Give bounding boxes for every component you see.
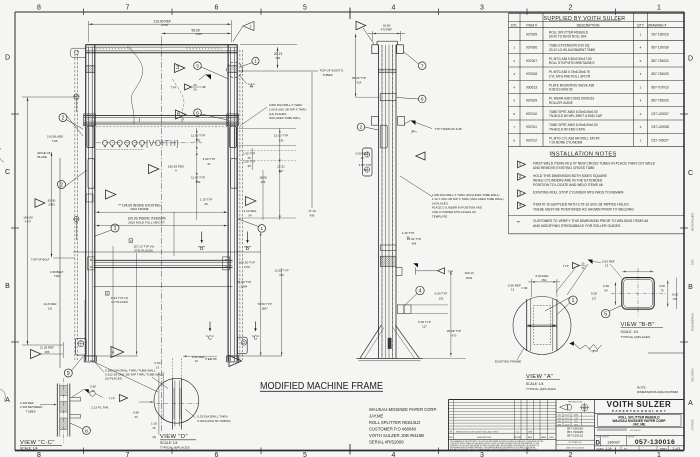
svg-text:VIEW "D": VIEW "D" <box>160 434 188 440</box>
svg-text:3: 3 <box>513 72 515 76</box>
border zone numbers top <box>37 5 661 12</box>
svg-text:"C": "C" <box>252 335 260 341</box>
svg-text:(8): (8) <box>153 435 157 439</box>
svg-text:C57-726027: C57-726027 <box>651 138 669 142</box>
balloon 2 upper <box>59 114 83 137</box>
flag + dim 82.00 <box>35 198 56 207</box>
voith roll circles <box>96 140 145 149</box>
svg-text:2: 2 <box>640 125 642 129</box>
svg-text:4: 4 <box>392 5 396 12</box>
side view collar 2 <box>380 245 396 251</box>
svg-text:567: 567 <box>279 169 284 173</box>
svg-text:KMW: KMW <box>574 415 578 417</box>
svg-text:0.50 REF: 0.50 REF <box>508 283 521 287</box>
drill note 0.891 <box>240 103 306 126</box>
open flag mid left <box>106 190 116 199</box>
svg-text:8: 8 <box>37 452 41 457</box>
side view valve bracket <box>397 305 448 314</box>
svg-text:TN-BOLD W/ NPL BRKT & END CAP: TN-BOLD W/ NPL BRKT & END CAP <box>549 114 602 118</box>
svg-text:NAME: NAME <box>541 436 547 439</box>
svg-text:C: C <box>5 169 10 176</box>
svg-text:17.16: 17.16 <box>308 209 316 213</box>
svg-text:4: 4 <box>419 288 422 294</box>
svg-text:13: 13 <box>91 389 95 393</box>
installation note 1 flag <box>518 161 656 170</box>
top of bolt label <box>31 258 75 262</box>
title block outline <box>449 400 685 451</box>
view D tube section <box>142 358 213 430</box>
front view right column tube <box>228 45 237 362</box>
svg-text:127: 127 <box>592 296 597 300</box>
svg-text:5: 5 <box>513 99 515 103</box>
svg-text:4: 4 <box>640 72 642 76</box>
border zone letters right <box>688 56 693 408</box>
svg-text:937010: 937010 <box>526 112 537 116</box>
svg-text:6: 6 <box>421 97 424 103</box>
balloon 9 bottom <box>64 357 83 378</box>
svg-text:C57-120037: C57-120037 <box>651 112 669 116</box>
svg-text:DTL: DTL <box>511 23 517 27</box>
svg-text:CUSTOMER TO VERIFY THIS DIMENS: CUSTOMER TO VERIFY THIS DIMENSION PRIOR … <box>533 219 648 223</box>
svg-text:0.90: 0.90 <box>133 410 139 414</box>
svg-text:USED ON 057-130016: USED ON 057-130016 <box>566 447 584 449</box>
svg-text:TYP: TYP <box>448 270 454 274</box>
side view tubes <box>377 41 398 358</box>
svg-text:5: 5 <box>303 5 307 12</box>
installation note 3 flag <box>518 190 625 197</box>
svg-text:8: 8 <box>85 428 88 434</box>
svg-text:937009: 937009 <box>526 99 537 103</box>
svg-text:2: 2 <box>60 182 63 188</box>
customer order text block <box>369 407 437 445</box>
svg-text:1867: 1867 <box>261 307 268 311</box>
balloon 1 inside panel <box>94 224 119 237</box>
svg-text:C57-120038: C57-120038 <box>651 125 669 129</box>
parts list table: SUPPLIED BY VOITH SULZER <box>509 13 685 146</box>
bolt symbol on existing frame <box>73 94 79 113</box>
svg-text:REF DWG NO: REF DWG NO <box>630 430 642 432</box>
svg-text:6.00x10.00x0.50: 6.00x10.00x0.50 <box>549 88 573 92</box>
svg-text:6: 6 <box>640 59 642 63</box>
weld edge dark dashes left column <box>84 300 86 355</box>
bolt symbol lower on existing frame <box>73 216 79 240</box>
svg-text:1.40 TYP: 1.40 TYP <box>402 231 415 235</box>
svg-text:A: A <box>688 400 693 407</box>
svg-text:ROLLER GUIDE: ROLLER GUIDE <box>549 101 573 105</box>
svg-text:6: 6 <box>513 112 515 116</box>
svg-text:1.00: 1.00 <box>151 421 157 425</box>
balloon 7 <box>404 52 426 70</box>
inner vertical dim lines to base <box>85 246 139 356</box>
svg-text:TYP: TYP <box>109 396 115 400</box>
svg-text:2.13 PL THK: 2.13 PL THK <box>91 406 109 410</box>
svg-text:930013: 930013 <box>526 85 537 89</box>
svg-text:6: 6 <box>215 452 219 457</box>
svg-text:2 of 5: 2 of 5 <box>673 447 681 451</box>
side view lower lug <box>396 268 402 276</box>
svg-text:KMW: KMW <box>528 431 533 433</box>
svg-text:2.50: 2.50 <box>603 284 609 288</box>
svg-text:2: 2 <box>640 85 642 89</box>
svg-text:MODIFIED MACHINE FRAME: MODIFIED MACHINE FRAME <box>260 381 383 392</box>
svg-text:28: 28 <box>204 202 208 206</box>
svg-text:914: 914 <box>357 81 362 85</box>
svg-text:6: 6 <box>177 112 180 118</box>
right dim vertical lines <box>196 128 296 220</box>
dim 36.00 typ <box>352 34 378 98</box>
view B-B dims <box>591 259 678 309</box>
balloon 2 side <box>357 123 378 131</box>
svg-text:NOT USED ON: NOT USED ON <box>569 442 582 444</box>
drill note bottom left <box>93 360 168 389</box>
svg-text:36.00 TYP: 36.00 TYP <box>352 76 366 80</box>
svg-text:CYL MTG PAD ROLL SPLTR: CYL MTG PAD ROLL SPLTR <box>549 74 591 78</box>
svg-text:VIEW "C-C": VIEW "C-C" <box>20 440 55 446</box>
VOITH stencil on beam <box>146 139 179 148</box>
border zone numbers bottom <box>37 452 661 457</box>
view D label <box>153 434 197 449</box>
break wavy line <box>128 46 143 125</box>
view D dims <box>133 355 217 435</box>
svg-text:406: 406 <box>412 242 417 246</box>
dim 186.00 <box>23 216 33 224</box>
svg-text:JAY,ME: JAY,ME <box>369 413 383 418</box>
boxed note 8.13 typ <box>106 292 129 304</box>
svg-text:SYSTEM: SYSTEM <box>691 420 695 431</box>
lower flags <box>111 347 242 367</box>
dim 12.26 left lower <box>43 302 57 310</box>
svg-text:FSCM NO: FSCM NO <box>602 437 610 439</box>
top of existing tubes label <box>312 69 344 208</box>
svg-text:DESCRIPTION: DESCRIPTION <box>477 437 491 439</box>
view A label <box>526 374 560 391</box>
svg-text:13: 13 <box>511 288 515 292</box>
right lower dimension stack <box>229 232 289 356</box>
svg-text:TUBES: TUBES <box>323 73 333 77</box>
flag 3 and balloon 3 <box>175 62 228 79</box>
svg-text:78.50 TYP: 78.50 TYP <box>237 280 251 284</box>
svg-text:A: A <box>5 397 10 404</box>
beam centerline <box>96 142 202 144</box>
balloon 4 side <box>405 286 424 305</box>
svg-text:"C": "C" <box>206 335 214 341</box>
dim 0.50 above view D <box>155 361 161 369</box>
installation note 2 flag <box>518 173 608 187</box>
svg-text:3.00: 3.00 <box>659 284 665 288</box>
svg-text:406: 406 <box>261 180 266 184</box>
svg-text:7.00 BORE CYLINDER: 7.00 BORE CYLINDER <box>549 141 583 145</box>
svg-text:54: 54 <box>248 214 252 218</box>
svg-text:13.00 TYP: 13.00 TYP <box>274 134 288 138</box>
left side dimension lines <box>22 97 76 345</box>
revision history table <box>449 400 557 440</box>
side view splice hatch <box>375 69 399 73</box>
svg-text:"A": "A" <box>248 84 255 90</box>
view A indicator circle at joint <box>227 62 255 89</box>
boxed note 157.13 typ <box>129 239 154 253</box>
view D drill note <box>185 409 231 423</box>
svg-text:TN-BOLD W/ END CAPS: TN-BOLD W/ END CAPS <box>549 127 585 131</box>
svg-text:EXISTING ROLL STOP CYLINDER MT: EXISTING ROLL STOP CYLINDER MTG PADS TO … <box>533 190 624 194</box>
balloon 6 side <box>397 95 426 103</box>
svg-text:(12) PLACES: (12) PLACES <box>269 112 286 116</box>
svg-text:C: C <box>688 170 693 177</box>
svg-text:0.891 DIA DRILL X THRU: 0.891 DIA DRILL X THRU <box>269 103 302 107</box>
svg-text:DRAWING #: DRAWING # <box>648 23 667 27</box>
svg-text:11.00 TYP: 11.00 TYP <box>191 176 205 180</box>
svg-text:857-707016: 857-707016 <box>651 85 668 89</box>
svg-text:26.38 TYP: 26.38 TYP <box>447 329 461 333</box>
svg-text:100.13: 100.13 <box>464 271 474 275</box>
svg-text:76: 76 <box>660 289 664 293</box>
side view guide plate <box>380 125 387 148</box>
svg-text:857-120036: 857-120036 <box>651 46 668 50</box>
svg-text:16.00 TYP: 16.00 TYP <box>407 237 421 241</box>
svg-text:[VOITH]: [VOITH] <box>146 139 179 148</box>
svg-text:436: 436 <box>310 214 315 218</box>
svg-text:1994: 1994 <box>241 285 248 289</box>
svg-text:937006: 937006 <box>526 46 537 50</box>
svg-text:2: 2 <box>513 59 515 63</box>
svg-text:HOLD THIS DIMENSION BOTH SIDES: HOLD THIS DIMENSION BOTH SIDES SQUARE <box>533 174 608 178</box>
svg-text:6.00x6.00x0.50 TUBING: 6.00x6.00x0.50 TUBING <box>198 419 232 423</box>
svg-text:QTY: QTY <box>637 23 645 27</box>
svg-text:1.50 TYP: 1.50 TYP <box>243 160 256 164</box>
svg-text:3: 3 <box>176 65 179 71</box>
column splice bands <box>79 66 243 73</box>
svg-text:FIRST WELD ITEMS #6 & #7 NEW C: FIRST WELD ITEMS #6 & #7 NEW CROSS TUBES… <box>533 162 656 166</box>
svg-text:VIEW "B-B": VIEW "B-B" <box>621 322 655 328</box>
svg-text:51: 51 <box>207 162 211 166</box>
svg-text:937011: 937011 <box>526 125 537 129</box>
svg-text:SCALE: 1/4: SCALE: 1/4 <box>526 382 544 386</box>
section B-B cut arrows <box>198 232 251 253</box>
top flag <box>233 22 254 42</box>
svg-text:13: 13 <box>195 359 199 363</box>
side view lower dims <box>402 231 474 359</box>
svg-text:INCLUDES TUBE WALL: INCLUDES TUBE WALL <box>269 116 301 120</box>
svg-text:5: 5 <box>303 452 307 457</box>
svg-text:2731: 2731 <box>244 265 251 269</box>
side view small dims <box>356 151 425 172</box>
svg-text:D: D <box>688 56 693 63</box>
side view dark guide plate <box>388 338 392 349</box>
column feet <box>84 356 239 362</box>
svg-text:6.00: 6.00 <box>672 292 678 296</box>
title block project title <box>595 413 685 435</box>
svg-text:TYP: TYP <box>171 85 177 89</box>
view A tube joint <box>527 299 557 351</box>
svg-text:TYP ITEMS #2 & #6: TYP ITEMS #2 & #6 <box>435 127 463 131</box>
svg-text:73.50 TYP: 73.50 TYP <box>257 302 271 306</box>
svg-text:1: 1 <box>513 46 515 50</box>
view B-B label <box>621 322 664 339</box>
svg-text:2: 2 <box>62 115 65 121</box>
svg-text:20: 20 <box>193 87 197 91</box>
svg-text:152: 152 <box>673 297 678 301</box>
border zone letters left <box>5 55 10 405</box>
svg-text:2: 2 <box>569 5 573 12</box>
balloon 5 view B-B <box>602 306 622 318</box>
svg-text:1997: 1997 <box>691 259 695 265</box>
view A weld note top <box>556 260 601 296</box>
leader lines to view D <box>90 360 158 392</box>
installation notes box <box>509 146 685 233</box>
belt thickness note <box>50 270 64 278</box>
filled weld marker <box>199 75 211 81</box>
svg-text:2.13 REF: 2.13 REF <box>244 209 257 213</box>
svg-text:EXISTING FRAME: EXISTING FRAME <box>495 359 521 363</box>
svg-text:SCALE: SCALE <box>597 447 605 450</box>
title block legal fine print <box>450 440 544 451</box>
svg-text:2: 2 <box>360 125 363 131</box>
small plate on left column <box>86 194 93 202</box>
svg-text:5.00: 5.00 <box>591 292 597 296</box>
svg-text:TUBES: TUBES <box>26 409 36 413</box>
svg-text:BLADE: BLADE <box>38 155 48 159</box>
middle cross beam item 6 <box>72 114 248 127</box>
svg-text:286: 286 <box>45 350 50 354</box>
svg-text:TOP OF BOLT: TOP OF BOLT <box>31 258 50 262</box>
svg-text:REVISION ROLLER GUIDE DWG, ADD: REVISION ROLLER GUIDE DWG, ADD ITEM 9 <box>456 430 500 433</box>
svg-text:64: 64 <box>604 289 608 293</box>
svg-text:3: 3 <box>480 5 484 12</box>
svg-text:6.00 TYP: 6.00 TYP <box>435 292 448 296</box>
flag 6 and balloon 6 <box>176 109 228 120</box>
weld symbol typ 25/20 <box>171 83 207 91</box>
svg-text:4737: 4737 <box>25 220 32 224</box>
svg-text:"B": "B" <box>198 246 205 252</box>
svg-text:13: 13 <box>156 365 160 369</box>
svg-text:1.00-8 UNC-2B TAP X THRU: 1.00-8 UNC-2B TAP X THRU <box>269 107 306 111</box>
svg-text:057-130016: 057-130016 <box>635 439 675 446</box>
svg-text:B: B <box>688 284 693 291</box>
svg-text:7: 7 <box>126 452 130 457</box>
svg-text:TYPICAL (4)PLACES: TYPICAL (4)PLACES <box>621 335 651 339</box>
right column dimension stack <box>191 134 316 218</box>
fold line right <box>648 352 684 354</box>
svg-text:THESE MUST BE POSITIONED AS SH: THESE MUST BE POSITIONED AS SHOWN PRIOR … <box>533 207 634 211</box>
svg-text:VIEW "A": VIEW "A" <box>526 374 554 380</box>
svg-text:0.50 REF: 0.50 REF <box>602 259 615 263</box>
svg-text:3: 3 <box>480 452 484 457</box>
edge of blade label <box>38 151 54 159</box>
svg-text:60.00 TO 80.00 ROLL DIA: 60.00 TO 80.00 ROLL DIA <box>549 35 587 39</box>
svg-text:ROLL SPLITTER REBUILD: ROLL SPLITTER REBUILD <box>369 420 420 425</box>
svg-text:4: 4 <box>640 46 642 50</box>
svg-text:057-120122: 057-120122 <box>567 433 584 437</box>
top width dimensions <box>89 19 232 42</box>
svg-text:857-726024: 857-726024 <box>651 59 668 63</box>
balloon 1 mid right <box>238 219 266 232</box>
third angle projection symbol panel <box>556 402 595 450</box>
svg-text:057-130016: 057-130016 <box>651 33 668 37</box>
svg-text:6-9-97: 6-9-97 <box>565 418 570 420</box>
svg-text:9: 9 <box>67 371 70 377</box>
side view top side blocks <box>372 45 404 54</box>
svg-text:VOITH SULZER: VOITH SULZER <box>607 400 672 409</box>
view D detail circle <box>154 378 199 423</box>
svg-text:THK: THK <box>52 139 58 143</box>
svg-text:SCALE: 1/4: SCALE: 1/4 <box>621 330 639 334</box>
svg-text:7: 7 <box>513 125 515 129</box>
balloon 1 view A <box>545 296 577 315</box>
svg-text:2794: 2794 <box>161 23 168 27</box>
svg-text:1: 1 <box>572 298 575 304</box>
svg-text:TEMPLATE.: TEMPLATE. <box>432 214 448 218</box>
svg-text:3731 PLACES: 3731 PLACES <box>134 248 153 252</box>
cylinder position note <box>400 176 504 218</box>
svg-text:2083: 2083 <box>48 203 55 207</box>
svg-text:B: B <box>5 283 10 290</box>
view B-B tube section <box>611 268 666 317</box>
inside width dimensions <box>73 203 261 256</box>
svg-text:22.31: 22.31 <box>277 164 285 168</box>
svg-text:6-9-97: 6-9-97 <box>565 421 570 423</box>
svg-text:1: 1 <box>657 452 661 457</box>
svg-text:P A P E R T E C H N O L O G Y: P A P E R T E C H N O L O G Y <box>612 409 667 413</box>
existing frame label <box>495 348 524 363</box>
view A dims <box>508 274 560 297</box>
svg-text:136937: 136937 <box>607 440 620 444</box>
break wavy line lower <box>173 79 185 123</box>
svg-text:AND MODIFYING STRONGBACK FOR R: AND MODIFYING STRONGBACK FOR ROLLER GUID… <box>533 224 621 228</box>
svg-text:857-726026: 857-726026 <box>651 99 668 103</box>
svg-text:3.00 TYP: 3.00 TYP <box>359 163 372 167</box>
svg-text:107.50 TYP: 107.50 TYP <box>239 260 255 264</box>
svg-text:1.10 TYP: 1.10 TYP <box>200 198 213 202</box>
svg-text:472 REF: 472 REF <box>381 28 393 32</box>
svg-text:1: 1 <box>640 33 642 37</box>
svg-text:1: 1 <box>260 226 263 232</box>
svg-text:311: 311 <box>48 306 53 310</box>
svg-text:23: 23 <box>134 415 138 419</box>
balloon 2 lower <box>58 170 88 189</box>
svg-text:MICROFILMED: MICROFILMED <box>691 213 695 231</box>
svg-text:13: 13 <box>360 156 364 160</box>
svg-text:152: 152 <box>542 278 547 282</box>
svg-text:SCALE: 1/4: SCALE: 1/4 <box>20 447 38 451</box>
view C-C section <box>48 378 80 443</box>
weld zigzag typ <box>589 345 602 354</box>
edge of blade line <box>59 158 61 368</box>
film edge vertical text <box>691 213 695 431</box>
svg-text:511: 511 <box>276 56 281 60</box>
corner plate top left <box>70 48 85 57</box>
svg-text:2642 FRAME: 2642 FRAME <box>130 207 148 211</box>
front view left column (existing frame edge, dashed) <box>75 50 243 360</box>
svg-text:4: 4 <box>513 85 515 89</box>
svg-text:4: 4 <box>640 99 642 103</box>
svg-text:2543: 2543 <box>466 276 473 280</box>
svg-text:2: 2 <box>640 112 642 116</box>
svg-text:CUSTOMER P.O #68048: CUSTOMER P.O #68048 <box>369 426 417 431</box>
note dimensions bottom right <box>637 386 679 394</box>
svg-text:0.53 DIA DRILL THRU: 0.53 DIA DRILL THRU <box>198 415 228 419</box>
side view triangular base <box>357 325 423 361</box>
svg-text:6-6-97: 6-6-97 <box>565 415 570 417</box>
svg-text:A: A <box>450 429 452 433</box>
svg-text:4: 4 <box>392 452 396 457</box>
svg-text:1397: 1397 <box>196 32 203 36</box>
svg-text:SHEET: SHEET <box>660 448 667 450</box>
svg-text:PROJECTION: PROJECTION <box>568 402 583 404</box>
drawing title MODIFIED MACHINE FRAME <box>260 381 383 392</box>
side view cylinder bracket <box>363 148 373 176</box>
svg-text:6: 6 <box>215 5 219 12</box>
svg-text:SCALE: 1/4: SCALE: 1/4 <box>160 441 178 445</box>
svg-text:330: 330 <box>279 138 284 142</box>
